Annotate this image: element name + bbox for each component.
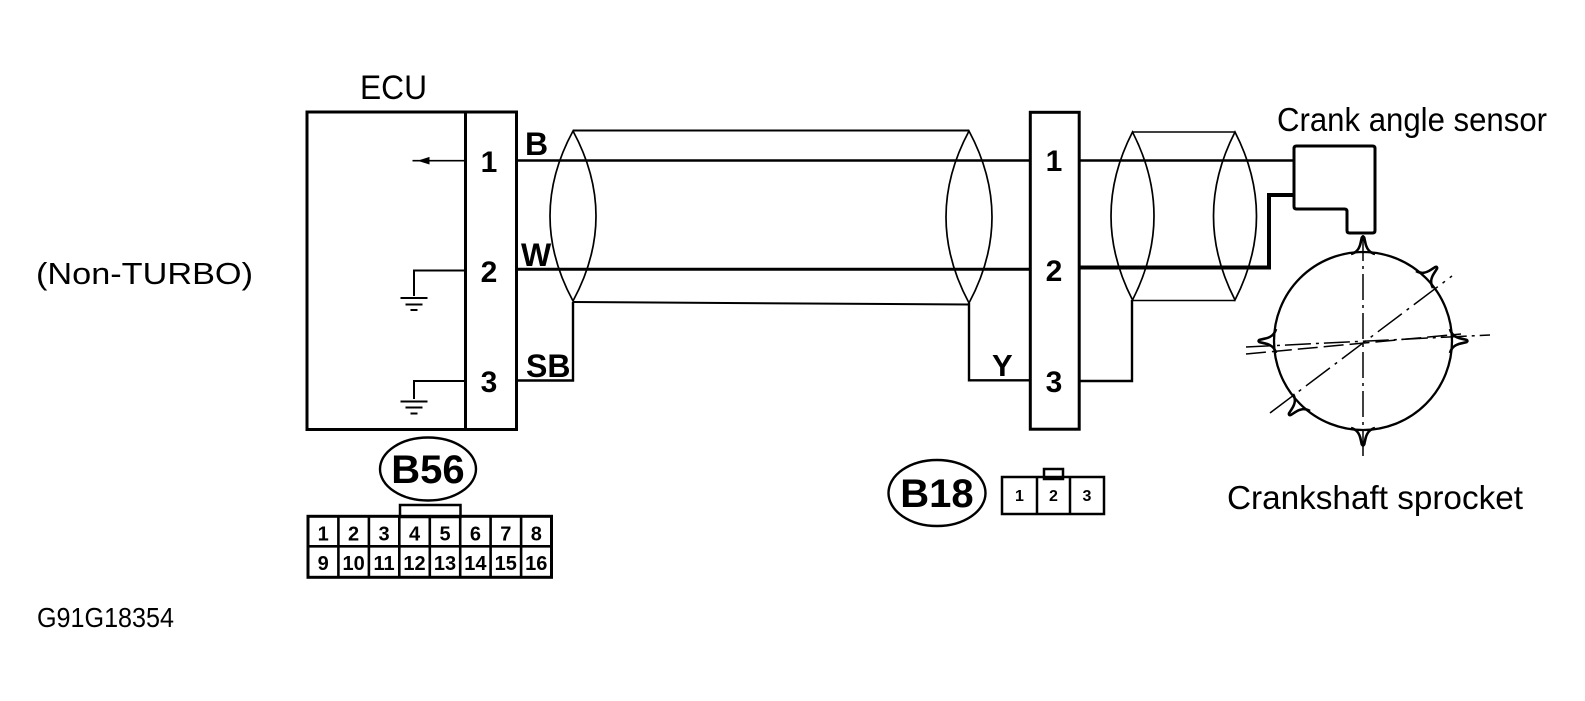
svg-text:2: 2 (1049, 488, 1058, 505)
ECU connector strip divider (464, 112, 467, 430)
sprocket centerline horizontal 2 (1246, 334, 1461, 354)
svg-text:9: 9 (318, 553, 329, 575)
label Non-TURBO (36, 256, 253, 291)
svg-text:B18: B18 (900, 472, 973, 516)
wire pin1 internal with arrow (413, 157, 466, 165)
connector label oval B18 (889, 460, 986, 526)
svg-text:(Non-TURBO): (Non-TURBO) (36, 256, 253, 291)
ECU pin 2 (481, 256, 498, 289)
wire SB (ECU pin3 to shield) (518, 302, 573, 381)
crank angle sensor body U1 (1294, 146, 1375, 233)
connector B18 pinout (1002, 469, 1104, 514)
ECU pin 3 (481, 366, 498, 399)
B18 pin 2 (1046, 255, 1063, 288)
ECU pin 1 (481, 146, 498, 179)
wire W (B18 pin2 to sensor) (1079, 195, 1294, 268)
svg-text:6: 6 (470, 524, 481, 546)
svg-text:2: 2 (481, 256, 498, 289)
cable bottom line (1133, 300, 1236, 302)
B56 grid cells row1 (318, 516, 542, 577)
svg-text:Crank angle sensor: Crank angle sensor (1277, 101, 1547, 138)
svg-text:11: 11 (374, 553, 395, 575)
sprocket centerline horizontal (1246, 335, 1490, 347)
B18 pin 1 (1046, 145, 1063, 178)
cable lens C (1111, 132, 1154, 300)
svg-text:2: 2 (348, 524, 359, 546)
label wire W (521, 237, 552, 273)
svg-text:5: 5 (439, 524, 450, 546)
svg-text:4: 4 (409, 524, 421, 546)
svg-text:Crankshaft sprocket: Crankshaft sprocket (1227, 479, 1523, 516)
svg-text:16: 16 (525, 553, 547, 575)
wire W (ECU pin2 to connector B18 pin2) (518, 268, 1030, 271)
sprocket centerline vertical (1362, 235, 1364, 461)
svg-text:1: 1 (481, 146, 498, 179)
svg-text:SB: SB (526, 348, 570, 384)
svg-text:3: 3 (481, 366, 498, 399)
label Crankshaft sprocket (1227, 479, 1523, 516)
svg-text:1: 1 (1046, 145, 1063, 178)
B56 grid cells row2 (318, 553, 548, 575)
wire shield to B18 pin3 (Y) (969, 303, 1030, 380)
sprocket centerline diagonal (1270, 276, 1452, 413)
connector label oval B56 (380, 438, 476, 501)
wire B (ECU pin1 to connector B18 pin1) (518, 159, 1030, 161)
connector B56 pinout grid (308, 505, 552, 577)
label wire Y (992, 348, 1013, 383)
wire pin2 to ground (414, 271, 465, 297)
svg-text:2: 2 (1046, 255, 1063, 288)
svg-text:3: 3 (1046, 366, 1063, 399)
label figure id G91G18354 (37, 602, 174, 633)
svg-text:15: 15 (495, 553, 517, 575)
label Crank angle sensor (1277, 101, 1547, 138)
svg-text:8: 8 (531, 524, 542, 546)
connector B18 strip (1030, 112, 1079, 429)
svg-text:3: 3 (1083, 488, 1092, 505)
svg-text:14: 14 (464, 553, 487, 575)
svg-text:10: 10 (342, 553, 364, 575)
B18 pin 3 (1046, 366, 1063, 399)
label ECU (360, 69, 427, 107)
svg-text:B56: B56 (391, 448, 464, 492)
shield bottom line (573, 302, 969, 305)
svg-text:7: 7 (500, 524, 511, 546)
shield lens A (550, 131, 596, 301)
ECU box (307, 112, 517, 430)
shield top line (573, 130, 969, 132)
svg-text:3: 3 (379, 524, 390, 546)
cable lens D (1214, 132, 1257, 300)
cable top line (1133, 131, 1236, 133)
svg-text:1: 1 (1015, 488, 1024, 505)
ground G2 (401, 402, 428, 414)
wire B18 pin3 to cable shield (1079, 300, 1132, 381)
shield lens B (946, 131, 992, 303)
svg-text:1: 1 (318, 524, 329, 546)
svg-text:W: W (521, 237, 552, 273)
crankshaft sprocket wheel (1259, 237, 1468, 446)
svg-text:B: B (525, 126, 548, 162)
label wire SB (526, 348, 570, 384)
svg-text:ECU: ECU (360, 69, 427, 107)
svg-text:G91G18354: G91G18354 (37, 602, 174, 633)
svg-text:Y: Y (992, 348, 1013, 383)
svg-text:12: 12 (403, 553, 425, 575)
wire B (B18 pin1 to sensor) (1079, 159, 1294, 161)
ground G1 (401, 298, 428, 310)
wire pin3 to ground (414, 381, 465, 399)
svg-text:13: 13 (434, 553, 456, 575)
label wire B (525, 126, 548, 162)
